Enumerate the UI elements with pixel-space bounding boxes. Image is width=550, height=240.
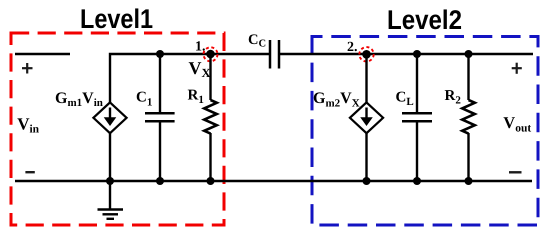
wire: Gm1 source to bottom net xyxy=(109,133,111,181)
plus sign Vin xyxy=(22,63,33,74)
wire: top net left (node 1 net) xyxy=(110,54,270,103)
wire: node2 net to CL top plate xyxy=(416,54,418,113)
junction: R2 top xyxy=(465,50,473,58)
Level1 boundary box (red dashed) xyxy=(11,33,224,225)
wire: node2 net to R2 xyxy=(467,54,469,100)
wire: node1 net to C1 top plate xyxy=(159,54,161,113)
junction: C1 top xyxy=(156,50,164,58)
Level2 boundary box (blue dashed) xyxy=(312,37,538,226)
dependent source Gm1Vin (diamond) xyxy=(93,102,126,133)
wire: C1 bottom plate to bottom net xyxy=(159,121,161,181)
svg-text:Level1: Level1 xyxy=(80,4,153,34)
wire: Gm2 source to bottom net xyxy=(365,133,367,181)
resistor R2 zigzag xyxy=(462,100,475,134)
ground symbol xyxy=(98,181,124,219)
svg-text:Level2: Level2 xyxy=(387,5,462,35)
capacitor C1 plates xyxy=(145,112,175,115)
junction: R1 bottom xyxy=(207,177,215,185)
wire: node1 to R1 xyxy=(209,54,211,100)
node 2 red dashed circle xyxy=(359,47,373,61)
plus sign Vout xyxy=(512,63,522,74)
minus sign Vin xyxy=(25,171,34,173)
resistor R1 zigzag xyxy=(204,100,217,134)
capacitor CC plates xyxy=(269,40,272,69)
node 1 junction dot xyxy=(206,50,215,59)
junction: C1 bottom xyxy=(156,177,164,185)
svg-text:2.: 2. xyxy=(347,40,358,55)
arrow inside Gm1 source xyxy=(109,108,111,120)
junction: R2 bottom xyxy=(465,177,473,185)
node 1 red dashed circle xyxy=(204,47,218,61)
wire: node2 to Gm2 source xyxy=(365,54,367,103)
wire: R2 to bottom net xyxy=(467,133,469,181)
wire: CL bottom plate to bottom net xyxy=(416,121,418,181)
junction: CL bottom xyxy=(413,177,421,185)
wire: Vin + terminal stub xyxy=(15,53,70,55)
capacitor CL plates xyxy=(402,112,432,115)
wire: R1 to bottom net xyxy=(209,133,211,181)
wire: top net right (node 2 net) xyxy=(280,53,534,55)
junction: CL top xyxy=(413,50,421,58)
dependent source Gm2VX (diamond) xyxy=(350,102,383,133)
junction: Gm1 bottom xyxy=(106,177,114,185)
arrow inside Gm2 source xyxy=(365,108,367,120)
minus sign Vout xyxy=(509,171,522,173)
junction: Gm2 bottom xyxy=(363,177,371,185)
wire: bottom ground net xyxy=(15,180,532,182)
node 2 junction dot xyxy=(362,50,371,59)
